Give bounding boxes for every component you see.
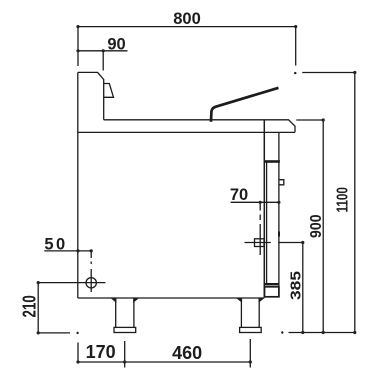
bottom tick right foot center <box>249 339 251 368</box>
gas inlet crosshair vertical <box>259 203 261 255</box>
svg-text:210: 210 <box>19 295 40 317</box>
floor reference line <box>289 332 355 334</box>
right foot base <box>240 327 262 332</box>
left foot base <box>114 327 136 332</box>
dimension 900 line <box>322 120 324 333</box>
dimension 50 extension down <box>90 251 92 264</box>
column thick bar <box>264 160 280 163</box>
hole circle <box>86 278 96 288</box>
wall tick <box>278 232 280 237</box>
dimension 90 right extension <box>102 52 104 71</box>
dimension 90 line <box>78 50 128 52</box>
svg-text:90: 90 <box>107 36 125 54</box>
left foot <box>116 298 134 327</box>
bottom tick left foot center <box>124 341 126 368</box>
dimension 800 right extension <box>295 27 297 66</box>
rear column right wall <box>278 132 280 297</box>
interior top line <box>78 131 295 133</box>
svg-text:900: 900 <box>308 214 325 238</box>
right foot flanges <box>238 298 264 301</box>
unit left wall <box>77 72 79 298</box>
svg-text:800: 800 <box>173 10 201 28</box>
svg-text:385: 385 <box>287 271 304 300</box>
pan handle lever <box>211 88 279 122</box>
dimension 900 top extension <box>296 119 323 121</box>
column bottom divider <box>264 283 279 285</box>
gas inlet crosshair horizontal <box>245 242 303 244</box>
dimension 800 line <box>78 26 296 28</box>
svg-text:460: 460 <box>172 343 202 363</box>
rear column inner left wall <box>266 163 268 285</box>
rear column outer left wall <box>263 120 265 298</box>
dimension 385 line <box>302 243 304 333</box>
dimension 210 line <box>37 283 39 333</box>
dimension 210 bottom extension <box>38 332 70 334</box>
dimension 50 line <box>44 250 91 252</box>
column bottom box <box>265 287 279 297</box>
column side tab <box>279 180 284 185</box>
hole crosshair vertical <box>90 269 92 292</box>
bottom dimension line 170/460 <box>77 361 250 363</box>
gas inlet square <box>255 239 265 247</box>
unit top ledge <box>78 72 104 119</box>
dimension 800 left extension <box>77 27 79 66</box>
cooktop surface <box>104 120 295 133</box>
dimension end dots <box>37 25 357 364</box>
dimension 1100 top extension <box>302 72 355 74</box>
right foot <box>241 298 259 327</box>
svg-text:50: 50 <box>44 236 67 254</box>
bottom tick left wall <box>77 343 79 363</box>
unit bottom <box>78 297 264 299</box>
control knob <box>104 84 114 98</box>
hole crosshair horizontal / 210 top extension <box>38 282 105 284</box>
svg-text:70: 70 <box>230 186 248 204</box>
dimension 70 line <box>231 201 279 203</box>
left foot flanges <box>112 298 138 301</box>
dimension 1100 line <box>354 73 356 333</box>
svg-text:1100: 1100 <box>335 187 352 213</box>
svg-text:170: 170 <box>86 342 116 362</box>
